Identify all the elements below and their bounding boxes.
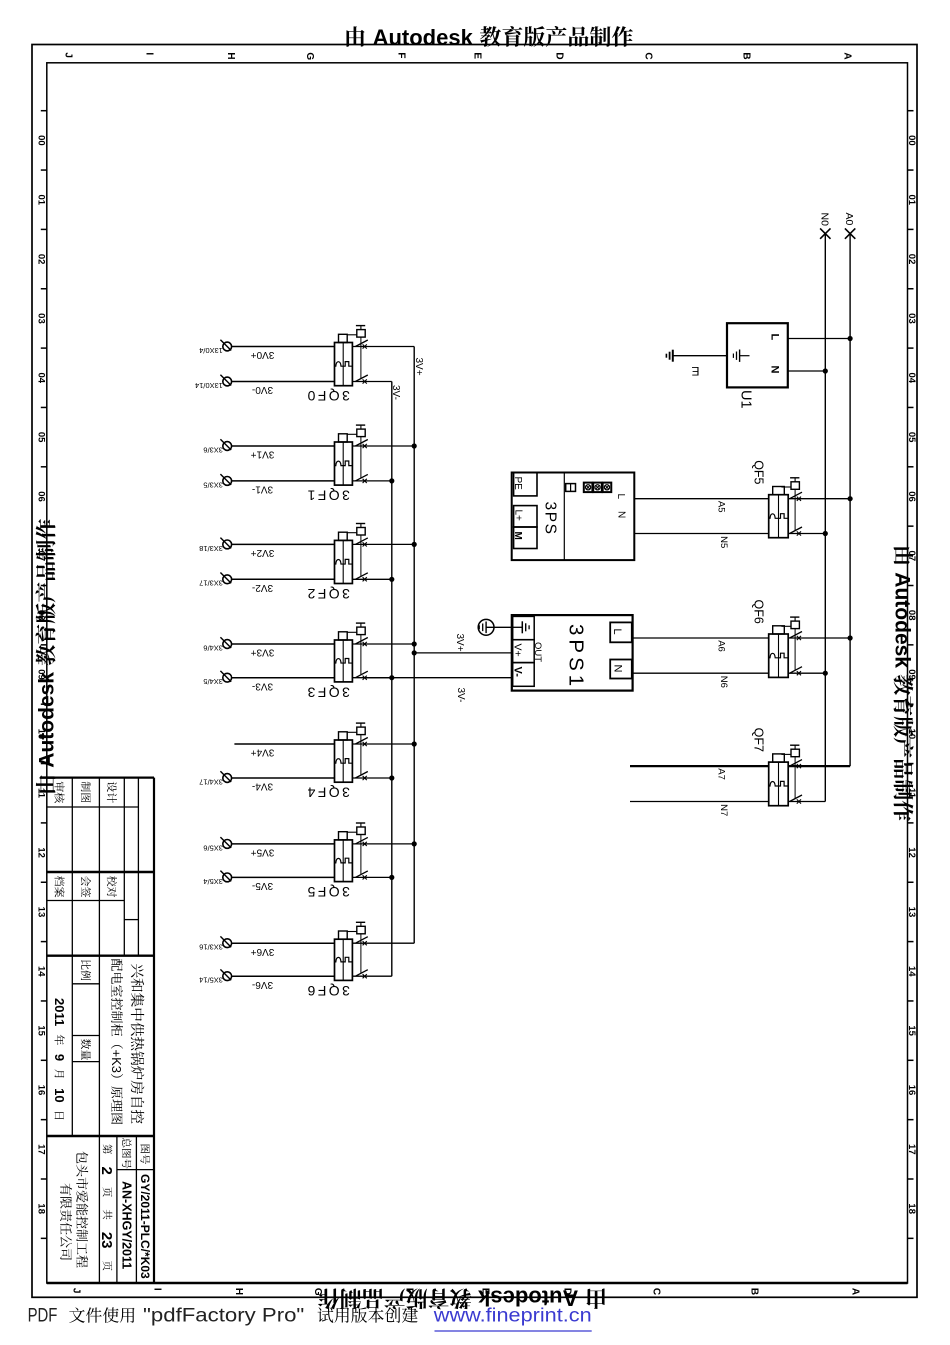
svg-text:3X4/17: 3X4/17	[199, 777, 223, 786]
svg-text:3X3/16: 3X3/16	[199, 943, 223, 952]
svg-text:03: 03	[35, 313, 46, 324]
svg-text:3X5/14: 3X5/14	[199, 976, 223, 985]
svg-text:06: 06	[35, 491, 46, 502]
svg-text:3V6+: 3V6+	[251, 946, 275, 957]
svg-text:3V+: 3V+	[454, 634, 465, 652]
svg-text:3X3/18: 3X3/18	[199, 544, 223, 553]
svg-text:14: 14	[35, 966, 46, 977]
svg-text:00: 00	[906, 135, 917, 146]
svg-text:01: 01	[906, 194, 917, 205]
svg-text:16: 16	[35, 1085, 46, 1096]
svg-text:A7: A7	[716, 768, 727, 780]
svg-text:B: B	[748, 1288, 759, 1295]
svg-text:02: 02	[906, 254, 917, 265]
svg-text:A0: A0	[843, 213, 855, 226]
svg-text:QF6: QF6	[752, 600, 766, 624]
svg-text:3QF3: 3QF3	[305, 684, 350, 700]
svg-text:2: 2	[98, 1167, 115, 1175]
svg-text:3V1-: 3V1-	[252, 484, 273, 495]
svg-text:L+: L+	[512, 510, 523, 522]
svg-text:13X0/14: 13X0/14	[195, 381, 223, 390]
svg-text:15: 15	[35, 1025, 46, 1036]
svg-text:17: 17	[35, 1144, 46, 1155]
svg-text:00: 00	[35, 135, 46, 146]
svg-text:+K3: +K3	[109, 1050, 124, 1074]
svg-text:3QF6: 3QF6	[305, 983, 350, 999]
svg-text:QF7: QF7	[752, 728, 766, 752]
svg-text:3X3/5: 3X3/5	[203, 480, 223, 489]
svg-text:3QF1: 3QF1	[305, 488, 350, 504]
svg-text:3QF2: 3QF2	[305, 586, 350, 602]
svg-text:N6: N6	[718, 676, 729, 688]
svg-text:2011: 2011	[52, 998, 67, 1026]
svg-text:H: H	[233, 1288, 244, 1295]
svg-text:L: L	[769, 334, 781, 341]
svg-text:3X3/17: 3X3/17	[199, 579, 223, 588]
svg-text:A: A	[841, 52, 852, 59]
svg-text:PE: PE	[512, 477, 523, 491]
svg-text:3V2+: 3V2+	[251, 547, 275, 558]
svg-text:3V2-: 3V2-	[252, 582, 273, 593]
svg-text:3X3/6: 3X3/6	[203, 445, 223, 454]
svg-text:Autodesk: Autodesk	[36, 672, 59, 768]
svg-text:18: 18	[906, 1203, 917, 1214]
svg-text:06: 06	[906, 491, 917, 502]
svg-text:N: N	[616, 511, 627, 518]
svg-text:N0: N0	[818, 213, 830, 227]
svg-text:C: C	[651, 1288, 662, 1295]
svg-text:U1: U1	[738, 390, 754, 409]
svg-text:V-: V-	[512, 667, 524, 678]
svg-text:01: 01	[35, 194, 46, 205]
svg-text:15: 15	[906, 1025, 917, 1036]
svg-text:3QF0: 3QF0	[305, 388, 350, 404]
svg-text:N: N	[612, 665, 624, 673]
svg-text:3X4/6: 3X4/6	[203, 643, 223, 652]
svg-text:04: 04	[906, 373, 917, 384]
svg-text:I: I	[151, 1288, 162, 1291]
svg-text:B: B	[740, 52, 751, 59]
svg-text:L: L	[611, 629, 623, 635]
svg-text:www.fineprint.cn: www.fineprint.cn	[433, 1306, 592, 1327]
svg-text:3PS: 3PS	[542, 502, 559, 536]
svg-text:14: 14	[906, 966, 917, 977]
svg-text:Autodesk: Autodesk	[373, 25, 474, 50]
svg-text:Autodesk: Autodesk	[891, 572, 914, 668]
svg-text:05: 05	[35, 432, 46, 443]
svg-text:05: 05	[906, 432, 917, 443]
svg-text:3V4+: 3V4+	[251, 747, 275, 758]
svg-text:16: 16	[906, 1085, 917, 1096]
svg-text:3V-: 3V-	[390, 385, 401, 400]
svg-text:13: 13	[906, 907, 917, 918]
svg-text:3V3+: 3V3+	[251, 647, 275, 658]
svg-text:13X0/4: 13X0/4	[199, 346, 223, 355]
svg-text:3V6-: 3V6-	[252, 979, 273, 990]
svg-text:D: D	[553, 52, 564, 59]
svg-text:3QF4: 3QF4	[305, 785, 350, 801]
svg-text:AN-XHGY/2011: AN-XHGY/2011	[120, 1181, 134, 1269]
svg-text:F: F	[395, 52, 406, 58]
svg-text:N: N	[769, 366, 781, 374]
svg-text:17: 17	[906, 1144, 917, 1155]
svg-text:10: 10	[52, 1088, 67, 1102]
svg-text:E: E	[471, 52, 482, 59]
svg-text:02: 02	[35, 254, 46, 265]
svg-text:04: 04	[35, 373, 46, 384]
svg-text:QF5: QF5	[752, 460, 766, 484]
svg-text:H: H	[225, 52, 236, 59]
svg-text:N5: N5	[718, 536, 729, 548]
svg-text:3V5+: 3V5+	[251, 847, 275, 858]
svg-text:L: L	[615, 494, 626, 500]
svg-text:3QF5: 3QF5	[305, 884, 350, 900]
svg-text:12: 12	[906, 847, 917, 858]
svg-text:3X5/6: 3X5/6	[203, 843, 223, 852]
svg-text:PDF: PDF	[28, 1306, 58, 1327]
svg-text:I: I	[143, 52, 154, 55]
svg-text:3X4/5: 3X4/5	[203, 677, 223, 686]
svg-text:E: E	[691, 364, 699, 378]
svg-text:A6: A6	[716, 640, 727, 652]
svg-text:3V0+: 3V0+	[251, 349, 275, 360]
svg-text:3PS1: 3PS1	[565, 624, 588, 690]
svg-text:A5: A5	[716, 501, 727, 513]
svg-text:G: G	[304, 52, 315, 60]
svg-text:A: A	[849, 1288, 860, 1295]
svg-text:3V5-: 3V5-	[252, 880, 273, 891]
svg-text:18: 18	[35, 1203, 46, 1214]
svg-text:J: J	[70, 1288, 81, 1294]
svg-text:C: C	[643, 52, 654, 59]
svg-text:GY/2011-PLC/*K03: GY/2011-PLC/*K03	[138, 1174, 152, 1279]
svg-text:13: 13	[35, 907, 46, 918]
svg-text:3V+: 3V+	[413, 358, 424, 376]
svg-text:M: M	[512, 532, 523, 540]
svg-text:09: 09	[906, 669, 917, 680]
svg-text:3V0-: 3V0-	[252, 384, 273, 395]
svg-text:"pdfFactory Pro": "pdfFactory Pro"	[143, 1306, 304, 1327]
svg-text:N7: N7	[718, 804, 729, 816]
svg-text:03: 03	[906, 313, 917, 324]
svg-text:3V1+: 3V1+	[251, 449, 275, 460]
svg-text:12: 12	[35, 847, 46, 858]
svg-text:V+: V+	[512, 644, 524, 657]
svg-text:23: 23	[98, 1232, 115, 1249]
svg-text:OUT: OUT	[532, 642, 543, 662]
svg-text:3V3-: 3V3-	[252, 680, 273, 691]
svg-text:3X5/4: 3X5/4	[203, 877, 223, 886]
svg-text:3V4-: 3V4-	[252, 781, 273, 792]
svg-text:9: 9	[52, 1054, 67, 1061]
svg-text:3V-: 3V-	[455, 688, 466, 703]
svg-text:J: J	[62, 52, 73, 58]
